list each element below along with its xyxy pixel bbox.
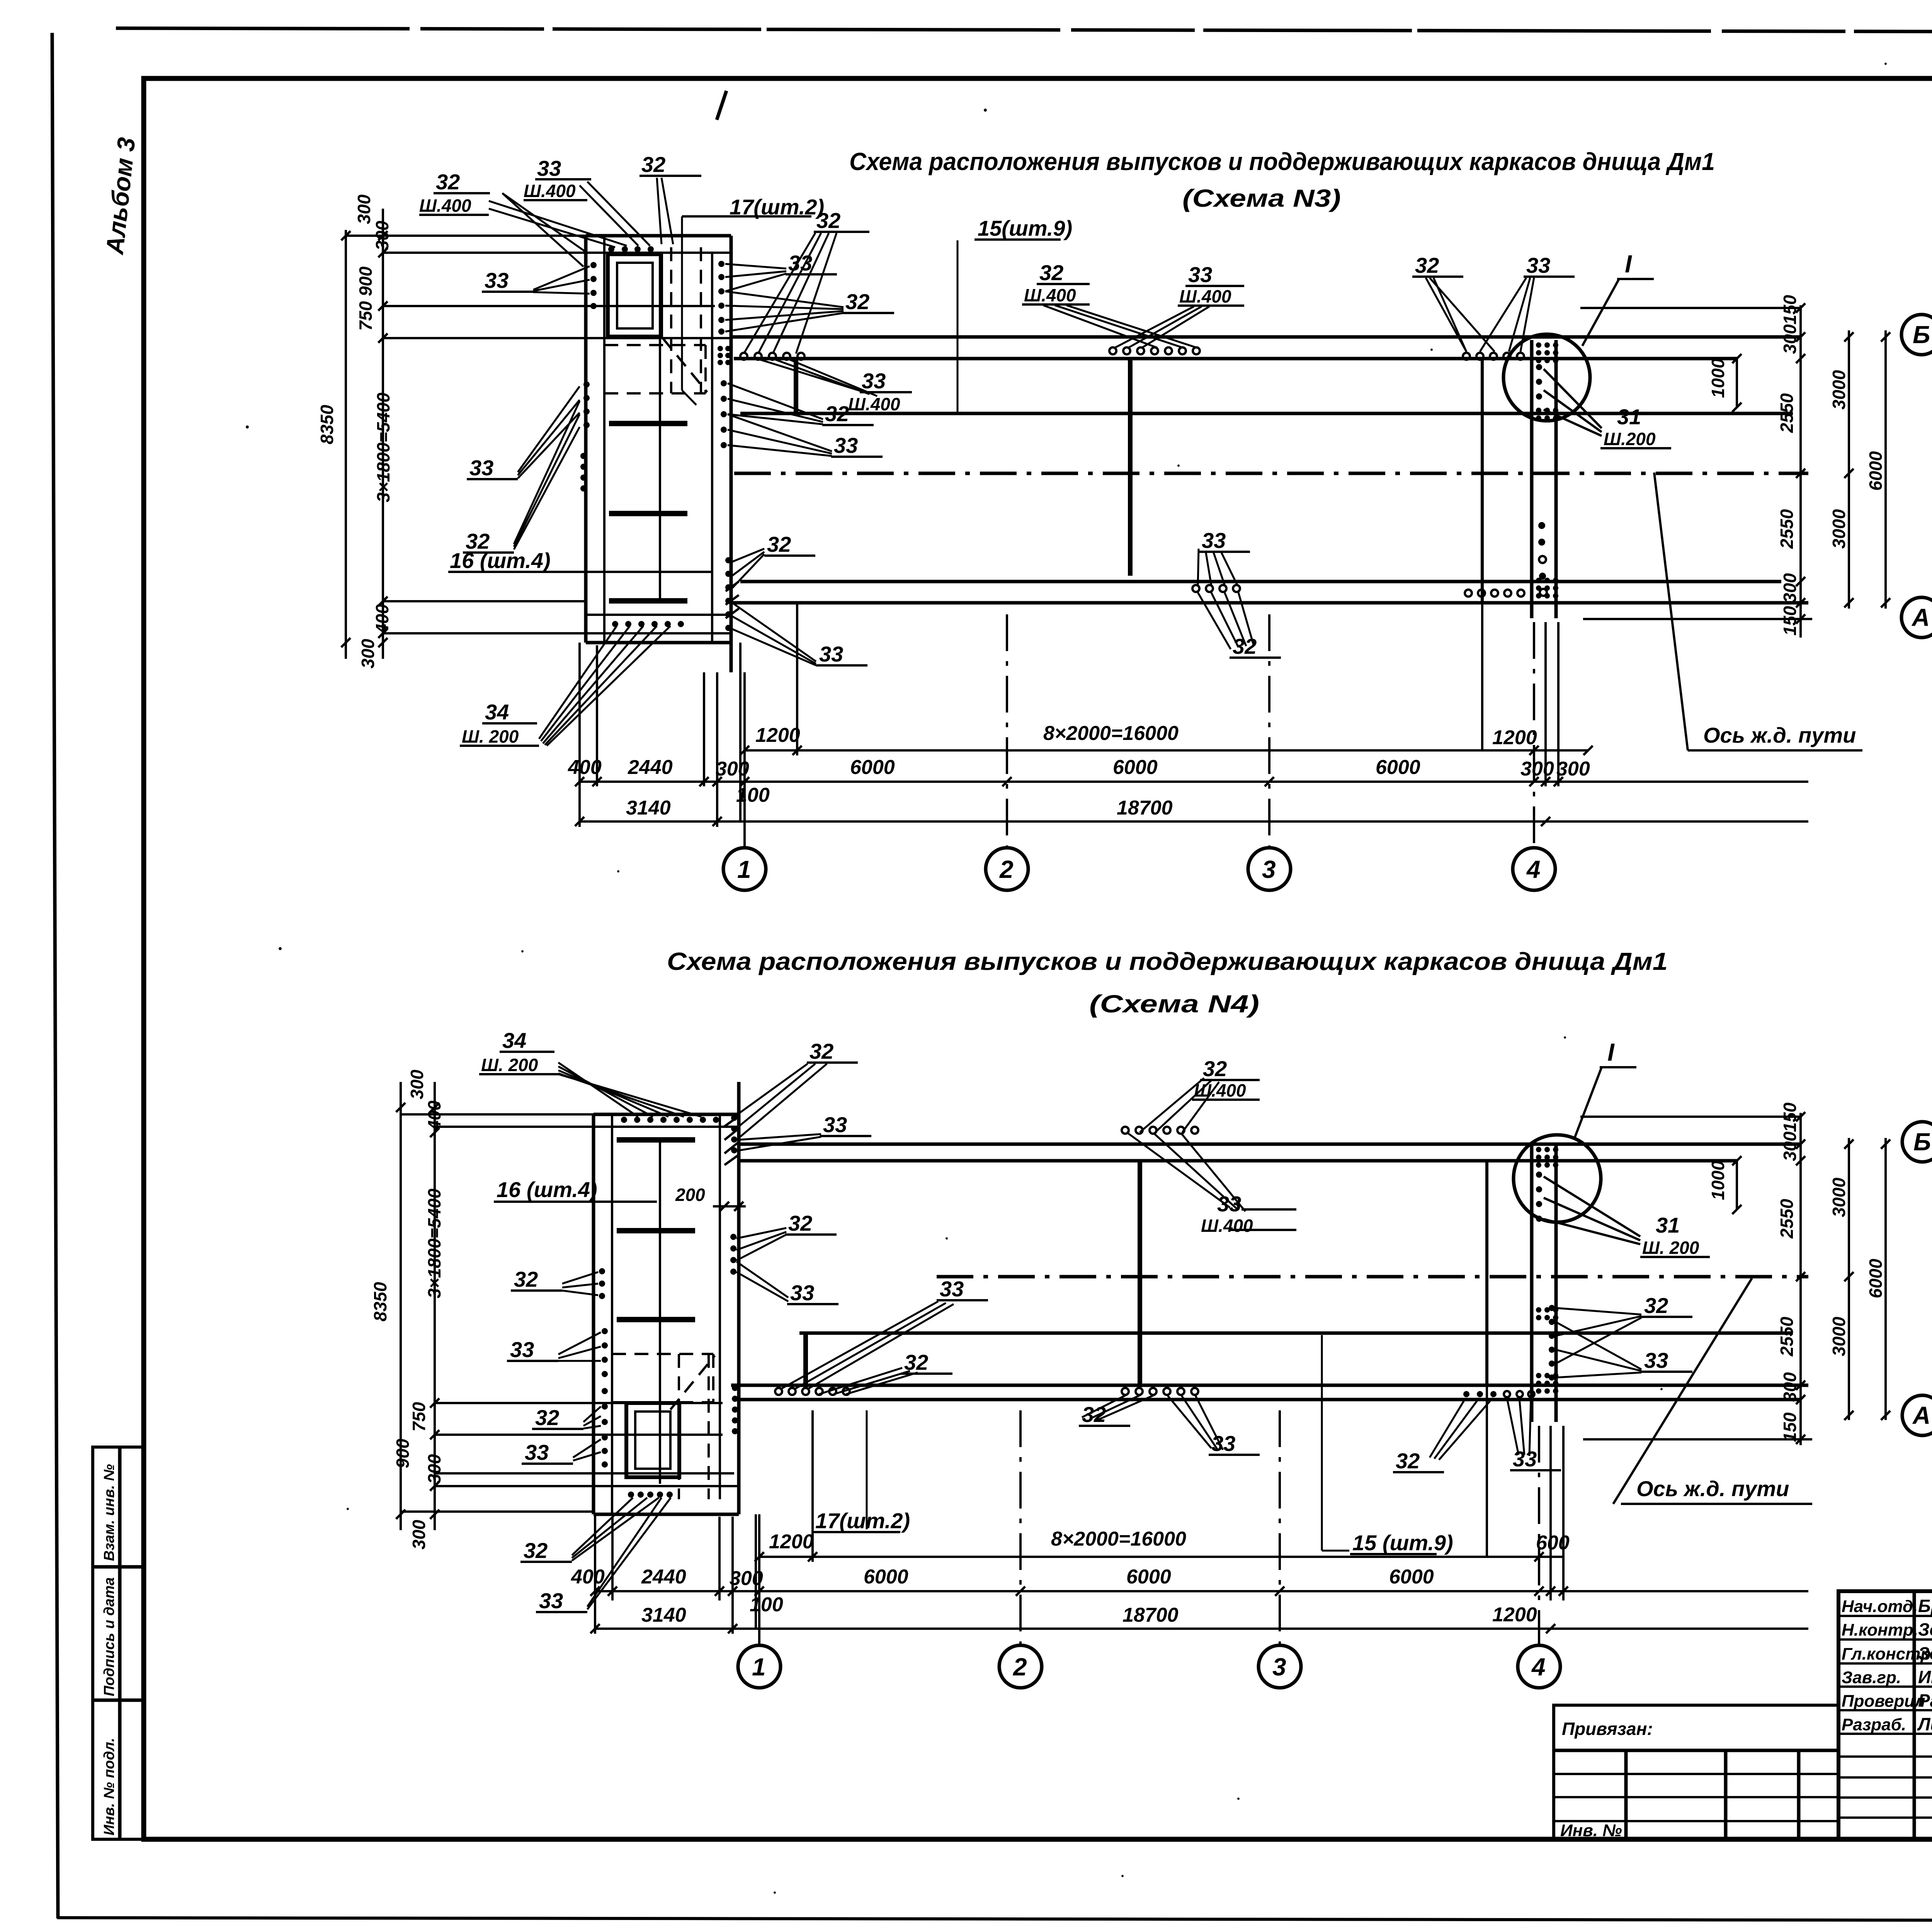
svg-text:17(шт.2): 17(шт.2) — [815, 1509, 910, 1533]
svg-text:32: 32 — [535, 1405, 559, 1430]
grid lines and circles — [758, 1514, 760, 1645]
svg-text:Иванова: Иванова — [1918, 1667, 1932, 1687]
1000 dim — [1736, 1161, 1738, 1209]
svg-text:1000: 1000 — [1708, 1160, 1728, 1200]
svg-text:Ось ж.д. пути: Ось ж.д. пути — [1636, 1476, 1789, 1501]
left dim chains — [400, 1082, 402, 1530]
bold bars 16 — [609, 421, 687, 426]
svg-text:400: 400 — [568, 756, 602, 779]
right dim chains — [1799, 305, 1802, 638]
svg-text:8350: 8350 — [317, 405, 337, 444]
wall dots — [580, 246, 731, 631]
svg-text:300: 300 — [358, 639, 378, 668]
svg-text:Зорин: Зорин — [1918, 1619, 1932, 1639]
svg-text:200: 200 — [675, 1185, 705, 1205]
svg-text:300: 300 — [730, 1567, 763, 1590]
svg-text:32: 32 — [641, 152, 665, 177]
svg-text:Инв. № подл.: Инв. № подл. — [101, 1738, 117, 1835]
svg-text:18700: 18700 — [1122, 1604, 1179, 1626]
svg-text:2550: 2550 — [1777, 1316, 1797, 1357]
wall section — [592, 1114, 595, 1514]
opening rect — [608, 254, 661, 337]
svg-text:2550: 2550 — [1777, 393, 1797, 433]
svg-text:3000: 3000 — [1829, 1177, 1849, 1217]
svg-text:Ш.400: Ш.400 — [1024, 285, 1076, 305]
svg-text:Проверил: Проверил — [1842, 1692, 1925, 1711]
svg-text:3000: 3000 — [1829, 509, 1849, 549]
svg-text:Ш. 200: Ш. 200 — [462, 726, 519, 747]
extension verticals — [594, 1514, 596, 1634]
svg-text:300: 300 — [354, 194, 374, 224]
svg-text:2: 2 — [999, 855, 1014, 883]
svg-text:15 (шт.9): 15 (шт.9) — [1352, 1531, 1453, 1555]
svg-text:33: 33 — [1526, 253, 1550, 277]
wall dots — [599, 1115, 738, 1498]
svg-text:Привязан:: Привязан: — [1562, 1719, 1653, 1739]
svg-text:400: 400 — [372, 604, 392, 634]
label underlines — [419, 176, 1575, 746]
svg-text:Бродский: Бродский — [1918, 1596, 1932, 1616]
svg-text:Ш. 200: Ш. 200 — [1642, 1238, 1699, 1258]
svg-text:33: 33 — [862, 369, 886, 393]
labels with leaders — [419, 152, 1550, 747]
dashed region — [612, 1353, 713, 1355]
svg-text:150: 150 — [1780, 1412, 1800, 1442]
svg-text:Взам. инв. №: Взам. инв. № — [101, 1464, 117, 1561]
svg-text:8350: 8350 — [370, 1282, 390, 1321]
svg-text:Б: Б — [1913, 1128, 1931, 1156]
beam open dots — [740, 347, 1547, 597]
svg-text:33: 33 — [823, 1112, 847, 1137]
svg-text:1200: 1200 — [1492, 1604, 1537, 1626]
svg-text:2550: 2550 — [1777, 509, 1797, 549]
svg-text:Ш.400: Ш.400 — [1201, 1216, 1253, 1236]
svg-text:33: 33 — [539, 1588, 563, 1613]
svg-text:Б: Б — [1913, 321, 1930, 349]
svg-text:33: 33 — [485, 268, 509, 293]
svg-text:33: 33 — [1188, 262, 1212, 287]
svg-text:6000: 6000 — [1866, 451, 1886, 491]
grid lines and circles — [743, 672, 746, 848]
extension lines from chains — [346, 235, 586, 237]
svg-text:3: 3 — [1262, 855, 1276, 883]
dim texts — [568, 722, 1590, 819]
svg-text:Схема расположения выпусков и: Схема расположения выпусков и поддержива… — [667, 947, 1668, 975]
svg-text:33: 33 — [1644, 1348, 1668, 1372]
svg-text:33: 33 — [790, 1281, 814, 1305]
svg-text:33: 33 — [510, 1337, 534, 1362]
svg-text:2440: 2440 — [628, 756, 673, 779]
svg-text:6000: 6000 — [1389, 1566, 1434, 1588]
svg-text:А: А — [1911, 604, 1930, 631]
privyazan table — [1554, 1705, 1838, 1840]
svg-text:6000: 6000 — [850, 756, 895, 779]
right end wall — [1530, 1144, 1534, 1422]
opening rect bottom — [626, 1403, 679, 1477]
svg-text:А: А — [1912, 1401, 1930, 1429]
svg-text:Ш.400: Ш.400 — [524, 181, 576, 201]
svg-text:300: 300 — [407, 1070, 427, 1099]
svg-text:32: 32 — [1644, 1293, 1668, 1318]
svg-text:Подпись и дата: Подпись и дата — [101, 1577, 117, 1696]
svg-text:300: 300 — [1780, 1372, 1800, 1402]
svg-text:Гл.констр: Гл.констр — [1842, 1645, 1931, 1663]
wall inner vertical — [659, 253, 661, 601]
svg-text:3000: 3000 — [1829, 1316, 1849, 1356]
svg-text:300: 300 — [1520, 758, 1554, 780]
svg-text:1: 1 — [737, 855, 751, 883]
sheet edge bottom — [57, 1918, 1932, 1921]
svg-text:400: 400 — [571, 1566, 605, 1588]
right end wall — [1530, 340, 1534, 618]
svg-text:6000: 6000 — [1113, 756, 1158, 779]
svg-text:33: 33 — [834, 433, 858, 457]
svg-text:33: 33 — [1202, 528, 1226, 553]
svg-text:Нач.отд.: Нач.отд. — [1842, 1597, 1918, 1616]
svg-text:32: 32 — [825, 401, 849, 426]
svg-text:1200: 1200 — [1492, 726, 1537, 749]
svg-text:6000: 6000 — [1126, 1566, 1171, 1588]
svg-text:(Схема N3): (Схема N3) — [1182, 184, 1341, 212]
svg-text:(Схема N4): (Схема N4) — [1089, 990, 1259, 1018]
svg-text:32: 32 — [810, 1039, 833, 1063]
bottom dim lines — [759, 1556, 1563, 1558]
svg-text:6000: 6000 — [1866, 1259, 1886, 1298]
svg-text:1000: 1000 — [1708, 358, 1728, 398]
svg-text:32: 32 — [1203, 1056, 1227, 1081]
svg-text:15(шт.9): 15(шт.9) — [978, 216, 1072, 240]
svg-text:300: 300 — [1780, 324, 1800, 354]
svg-text:Разраб.: Разраб. — [1842, 1715, 1906, 1734]
svg-text:34: 34 — [485, 700, 509, 724]
svg-text:Ш.400: Ш.400 — [419, 196, 471, 216]
svg-text:34: 34 — [502, 1028, 526, 1053]
svg-text:Литвиненко: Литвиненко — [1917, 1714, 1932, 1734]
svg-text:150: 150 — [1780, 606, 1800, 636]
svg-text:33: 33 — [525, 1440, 549, 1464]
svg-text:1: 1 — [752, 1653, 766, 1681]
svg-text:31: 31 — [1656, 1213, 1680, 1237]
long beams — [731, 335, 1801, 339]
bottom dim lines — [745, 749, 1588, 752]
svg-text:32: 32 — [816, 208, 840, 233]
svg-text:32: 32 — [1039, 260, 1063, 285]
svg-text:I: I — [1607, 1038, 1615, 1066]
svg-text:900: 900 — [393, 1439, 413, 1468]
extension verticals — [578, 643, 581, 827]
svg-text:3×1800=5400: 3×1800=5400 — [424, 1189, 444, 1298]
svg-text:750: 750 — [409, 1402, 429, 1432]
long beams — [739, 1143, 1801, 1146]
svg-text:100: 100 — [750, 1594, 783, 1616]
svg-text:Ш. 200: Ш. 200 — [481, 1055, 538, 1075]
dashed region — [604, 344, 706, 346]
svg-text:100: 100 — [736, 784, 770, 806]
svg-text:32: 32 — [845, 289, 869, 314]
svg-text:Схема расположения выпусков и: Схема расположения выпусков и поддержива… — [849, 148, 1715, 175]
sheet edge top — [116, 28, 1932, 33]
svg-text:150: 150 — [1780, 1102, 1800, 1132]
left dim chains — [345, 230, 347, 659]
axis circles — [1902, 1122, 1932, 1162]
svg-text:3140: 3140 — [626, 797, 671, 819]
svg-text:400: 400 — [424, 1100, 444, 1131]
svg-text:300: 300 — [409, 1520, 429, 1549]
svg-text:4: 4 — [1531, 1653, 1546, 1681]
ticks on dim lines — [575, 746, 1563, 826]
labels — [481, 1028, 1453, 1613]
svg-text:750 900: 750 900 — [355, 266, 376, 331]
svg-text:6000: 6000 — [1376, 756, 1420, 779]
svg-text:1200: 1200 — [755, 724, 800, 747]
svg-text:32: 32 — [524, 1538, 548, 1563]
wall section outer lines — [584, 236, 588, 643]
right dim chains — [1799, 1113, 1802, 1445]
svg-text:4: 4 — [1526, 855, 1541, 883]
bold bars — [617, 1137, 695, 1143]
svg-text:32: 32 — [1415, 253, 1439, 277]
wall inner vertical — [659, 1140, 661, 1484]
svg-text:300: 300 — [1556, 758, 1590, 780]
svg-text:33: 33 — [469, 456, 493, 480]
svg-text:3×1800=5400: 3×1800=5400 — [373, 393, 393, 502]
svg-text:Ш.400: Ш.400 — [848, 394, 900, 414]
svg-text:Ш.200: Ш.200 — [1604, 429, 1656, 449]
svg-text:31: 31 — [1617, 405, 1641, 429]
detail circle — [1514, 1135, 1601, 1222]
svg-text:32: 32 — [788, 1211, 812, 1235]
svg-text:33: 33 — [819, 642, 843, 666]
svg-text:Зорин: Зорин — [1918, 1643, 1932, 1663]
svg-text:3000: 3000 — [1829, 370, 1849, 410]
svg-text:600: 600 — [1536, 1532, 1570, 1554]
svg-text:16 (шт.4): 16 (шт.4) — [497, 1177, 597, 1202]
left stamp column table — [93, 1447, 144, 1839]
svg-text:33: 33 — [940, 1277, 964, 1301]
thick rebar bars — [794, 359, 798, 415]
svg-text:300: 300 — [372, 221, 392, 250]
svg-text:32: 32 — [436, 170, 460, 194]
svg-text:Ш.400: Ш.400 — [1179, 286, 1231, 306]
svg-text:33: 33 — [537, 156, 561, 180]
svg-text:8×2000=16000: 8×2000=16000 — [1051, 1528, 1186, 1550]
thick bars — [803, 1333, 808, 1387]
axis circles right — [1901, 315, 1932, 355]
svg-text:300: 300 — [716, 758, 749, 780]
svg-text:3: 3 — [1272, 1653, 1286, 1681]
svg-text:Инв. №: Инв. № — [1560, 1821, 1622, 1840]
1000 dim — [1736, 359, 1738, 407]
svg-text:3140: 3140 — [641, 1604, 686, 1626]
svg-text:Радько: Радько — [1918, 1690, 1932, 1711]
svg-text:150: 150 — [1780, 295, 1800, 325]
sheet edge left — [52, 33, 58, 1918]
svg-text:I: I — [1625, 250, 1632, 278]
svg-text:8×2000=16000: 8×2000=16000 — [1043, 722, 1179, 745]
svg-text:300: 300 — [1780, 573, 1800, 603]
svg-text:2440: 2440 — [641, 1566, 686, 1588]
svg-text:Н.контр.: Н.контр. — [1842, 1621, 1918, 1639]
svg-text:Ось ж.д. пути: Ось ж.д. пути — [1703, 723, 1856, 747]
leader lines — [489, 178, 1534, 746]
svg-text:1200: 1200 — [769, 1531, 814, 1553]
svg-text:32: 32 — [514, 1267, 538, 1291]
svg-text:2550: 2550 — [1777, 1199, 1797, 1239]
svg-text:6000: 6000 — [864, 1566, 908, 1588]
beam open dots — [775, 1127, 1198, 1395]
svg-text:300: 300 — [424, 1454, 444, 1484]
svg-text:32: 32 — [1396, 1449, 1420, 1473]
svg-text:300: 300 — [1780, 1131, 1800, 1161]
svg-text:18700: 18700 — [1117, 797, 1173, 819]
svg-text:32: 32 — [767, 532, 791, 556]
detail circle I on scheme — [1503, 334, 1590, 421]
svg-text:Зав.гр.: Зав.гр. — [1842, 1668, 1901, 1687]
svg-text:2: 2 — [1013, 1653, 1027, 1681]
